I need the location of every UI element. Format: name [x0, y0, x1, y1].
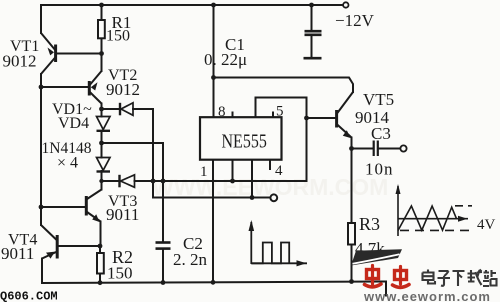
wire VT1 base to R1 node [57, 53, 102, 55]
svg-text:2. 2n: 2. 2n [173, 250, 208, 269]
resistor R3 [348, 223, 355, 245]
wire C1 bottom lead [311, 36, 313, 58]
wire bottom rail [42, 282, 386, 296]
wire VT2 emitter vertical [101, 54, 103, 72]
wire C3 right lead [378, 148, 400, 150]
wire VD3 row to right riser [135, 180, 307, 182]
wire pin8 tap to VT5 collector [214, 78, 354, 93]
capacitor C2 [156, 243, 171, 249]
wire pin8 vertical [213, 5, 215, 118]
wire R1 bottom lead [101, 38, 103, 54]
svg-text:9012: 9012 [3, 52, 37, 71]
diode VD1 [97, 117, 111, 131]
wire pin2 vertical [232, 160, 234, 182]
glyph 载 [468, 270, 483, 286]
wire vertical x153 [153, 109, 271, 198]
transistor VT2 [89, 71, 101, 104]
wire node A to VD2 [102, 108, 119, 110]
logo bug 2 [393, 267, 410, 288]
terminal output open circle (pin3) [270, 194, 277, 201]
svg-text:VD4: VD4 [58, 115, 89, 132]
svg-text:150: 150 [107, 264, 133, 283]
svg-text:VT5: VT5 [363, 90, 394, 109]
svg-text:5: 5 [276, 104, 284, 120]
wire VD3 row left [102, 180, 119, 182]
wire VD2 to corner [133, 108, 153, 110]
wire right riser to pin5 [256, 98, 307, 182]
transistor VT4 [41, 225, 57, 259]
svg-text:NE555: NE555 [222, 130, 267, 152]
svg-text:4V: 4V [477, 217, 496, 233]
svg-text:−12V: −12V [335, 11, 375, 30]
wire R3 bottom lead [351, 245, 353, 282]
wire VD4 top lead [101, 143, 103, 158]
wire VT4 base wire [59, 245, 101, 247]
wire VT2 collector vertical [101, 104, 103, 110]
wire C1 top lead [311, 5, 313, 31]
svg-text:10n: 10n [365, 160, 394, 179]
diode VD3 [120, 175, 135, 188]
wire VT4 emitter vertical [41, 259, 43, 284]
wire pin3 vertical [251, 160, 253, 198]
wire node B to C2 column [102, 143, 164, 242]
wire VT3 base wire [41, 206, 85, 208]
resistor R2 [97, 253, 104, 274]
wire R1 top lead [101, 5, 103, 20]
glyph 下 [453, 271, 465, 286]
wire VD4 bottom lead [101, 171, 103, 181]
wire VT5 base wire [307, 117, 336, 119]
wire R2 bottom lead [99, 274, 101, 283]
svg-text:9011: 9011 [106, 205, 139, 224]
glyph 子 [438, 271, 451, 286]
terminal -12V open circle [343, 2, 348, 7]
diode VD4 [97, 158, 111, 172]
logo text 电子下载站 [423, 270, 497, 287]
svg-text:150: 150 [106, 28, 130, 45]
wire VD1 bottom lead [101, 132, 103, 144]
wire C2 bottom lead [162, 249, 164, 283]
IC NE555 box [200, 117, 282, 160]
svg-text:0. 22μ: 0. 22μ [204, 50, 247, 69]
wire VT2 base to left rail [41, 86, 88, 88]
icon square wave [251, 222, 307, 264]
resistor R1 [98, 20, 105, 38]
wire C3 left lead [352, 148, 374, 150]
terminal C3 output open circle [400, 145, 406, 151]
svg-text:9011: 9011 [1, 244, 34, 263]
svg-text:×4: ×4 [57, 155, 82, 172]
wire tick box top a [232, 113, 234, 118]
svg-text:9012: 9012 [106, 80, 140, 99]
transistor VT3 [86, 190, 101, 223]
wire pin4 tick [269, 160, 271, 170]
wire VD1 top lead [101, 109, 103, 117]
transistor VT5 [337, 92, 353, 138]
logo black swoosh [351, 249, 402, 265]
wire tick box top b pin5 [272, 113, 274, 118]
wire left rail [40, 5, 42, 33]
svg-text:4: 4 [275, 163, 283, 179]
icon triangle wave [398, 186, 472, 236]
svg-text:C3: C3 [371, 124, 391, 143]
wire VT3 emitter vertical [100, 222, 102, 247]
wire pin1 vertical [212, 160, 214, 283]
transistor VT1 [41, 33, 56, 74]
logo bug 1 [365, 266, 382, 287]
glyph 站 [483, 270, 497, 286]
svg-text:www.eeworm.com: www.eeworm.com [363, 289, 491, 302]
svg-text:R3: R3 [359, 214, 380, 234]
capacitor C1 [304, 31, 322, 58]
svg-text:Q606.COM: Q606.COM [0, 290, 58, 302]
capacitor C3 [374, 141, 378, 157]
wire left rail lower [40, 74, 42, 225]
wire VT5 emitter vertical [351, 138, 353, 224]
wire VT3 collector vertical [101, 181, 103, 190]
wire R2 top lead [99, 246, 101, 253]
svg-text:8: 8 [218, 104, 226, 120]
wire top rail -12V [41, 4, 344, 6]
svg-text:1: 1 [200, 164, 208, 180]
glyph 电 [423, 270, 436, 284]
diode VD2 [120, 103, 133, 116]
